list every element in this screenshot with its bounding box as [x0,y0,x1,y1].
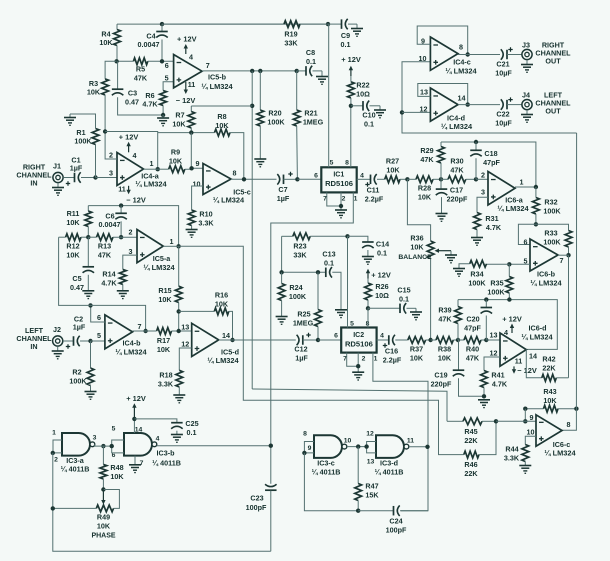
resistor R15 [158,246,182,331]
svg-text:1: 1 [52,430,56,437]
svg-text:0.0047: 0.0047 [99,220,121,229]
node [494,419,528,423]
power -12V [126,186,146,205]
resistor R4 [99,24,120,61]
NAND gate IC3-d [366,431,414,477]
svg-text:OUT: OUT [545,107,561,116]
svg-text:100K: 100K [69,377,87,386]
svg-text:10K: 10K [215,300,229,309]
svg-text:C17: C17 [450,186,463,195]
node [250,69,299,73]
resistor R16 [179,291,233,341]
svg-text:¼ LM324: ¼ LM324 [441,122,473,131]
svg-text:4.7K: 4.7K [101,279,117,288]
wire [281,236,283,272]
svg-text:IC4-b: IC4-b [123,339,142,348]
svg-text:4: 4 [133,151,137,160]
svg-text:R40: R40 [466,345,479,354]
wire [157,445,271,447]
wire [91,340,105,342]
svg-text:4: 4 [156,436,160,443]
capacitor C23 [246,484,277,551]
node [114,59,164,63]
svg-text:13: 13 [420,88,428,97]
capacitor C11 [357,174,385,203]
svg-text:100K: 100K [74,137,92,146]
svg-text:5: 5 [97,331,101,340]
svg-text:47K: 47K [420,155,434,164]
op-amp IC5-a [129,228,176,273]
svg-text:10K: 10K [66,251,80,260]
node [425,445,429,449]
wire IC2 pin1 [373,353,428,511]
wire L2 [179,246,464,454]
node [88,303,92,307]
resistor R23 [282,233,348,260]
svg-text:11: 11 [407,438,414,445]
svg-text:C14: C14 [376,240,389,249]
svg-text:10µF: 10µF [495,69,512,78]
power +12V [126,394,146,419]
svg-text:R41: R41 [491,371,504,380]
wire [133,330,157,332]
svg-text:R32: R32 [544,198,557,207]
resistor R5 [117,58,174,83]
wire IC2 pin8 [367,308,369,327]
svg-text:R10: R10 [199,210,212,219]
resistor R33 [536,224,572,255]
svg-text:¼ LM324: ¼ LM324 [201,82,233,91]
resistor R38 [431,337,458,363]
svg-text:11: 11 [188,80,196,89]
svg-text:R16: R16 [215,291,228,300]
node [103,129,107,133]
svg-text:6: 6 [165,61,169,70]
svg-text:C9: C9 [341,31,350,40]
wire [304,442,314,453]
capacitor C2 [63,315,91,349]
capacitor C8 [297,48,322,76]
ground [117,291,129,299]
op-amp IC6-b [524,238,564,288]
node [156,167,160,171]
svg-text:R35: R35 [490,279,503,288]
svg-text:4.7K: 4.7K [492,380,508,389]
ground [173,395,185,403]
svg-text:IC1: IC1 [333,172,344,179]
capacitor C25 [134,419,198,437]
node [456,338,460,342]
svg-text:¼ LM324: ¼ LM324 [143,263,175,272]
wire [407,179,430,241]
resistor R48 [100,446,124,489]
resistor R31 [474,197,502,237]
svg-text:10: 10 [527,428,535,437]
capacitor C13 [282,250,341,310]
wire IC4-b feedback [59,237,146,331]
resistor R28 [407,176,441,202]
wire [318,339,341,341]
svg-text:0.1: 0.1 [341,40,351,49]
svg-text:C24: C24 [389,517,402,526]
capacitor C16 [377,335,408,365]
node [110,444,114,448]
svg-text:10K: 10K [158,295,172,304]
capacitor C1 [63,156,95,186]
svg-text:¼ 4011B: ¼ 4011B [375,468,404,477]
svg-text:R36: R36 [410,234,423,243]
svg-text:10K: 10K [438,354,452,363]
svg-text:R13: R13 [98,242,111,251]
svg-text:8: 8 [233,169,237,178]
node [189,130,193,134]
svg-text:R12: R12 [66,242,79,251]
svg-text:10Ω: 10Ω [356,90,370,99]
svg-text:8: 8 [303,431,307,438]
svg-text:0.1: 0.1 [377,249,387,258]
svg-text:22K: 22K [464,436,478,445]
svg-text:100K: 100K [289,292,307,301]
ground [171,435,183,443]
svg-text:3: 3 [93,435,97,442]
svg-text:C20: C20 [466,315,479,324]
svg-text:IC5-a: IC5-a [153,254,172,263]
svg-text:R43: R43 [543,387,556,396]
capacitor C18 [470,142,500,179]
svg-text:¼ LM324: ¼ LM324 [115,348,147,357]
node [507,262,511,266]
svg-text:IC3-d: IC3-d [380,459,398,468]
wire L1 [252,389,447,421]
node [356,444,360,448]
svg-text:¼ LM324: ¼ LM324 [530,279,562,288]
wire [458,300,557,350]
node [534,222,538,226]
wire IC4-d feedback [418,84,468,105]
svg-text:1µF: 1µF [70,164,83,173]
op-amp IC4-c [419,37,478,76]
wire [409,446,428,448]
node [349,104,353,108]
svg-text:220pF: 220pF [431,380,452,389]
svg-text:+ 12V: + 12V [341,55,361,64]
node [356,509,360,513]
NAND gate IC3-b [112,426,181,468]
resistor R18 [158,348,192,395]
svg-text:C10: C10 [362,111,375,120]
svg-text:0.1: 0.1 [306,57,316,66]
node [345,234,349,238]
potentiometer R49 [53,490,116,540]
svg-text:8: 8 [345,159,349,166]
wire [117,23,328,25]
svg-text:− 12V: − 12V [176,96,196,105]
svg-text:1: 1 [374,356,378,363]
resistor R39 [438,300,461,340]
svg-text:100K: 100K [487,288,505,297]
svg-text:RD5106: RD5106 [345,339,373,348]
svg-text:100pF: 100pF [386,526,407,535]
svg-text:11: 11 [515,357,523,366]
capacitor C21 [495,47,522,77]
svg-text:1MEG: 1MEG [293,319,314,328]
svg-text:220pF: 220pF [447,195,468,204]
svg-text:11: 11 [118,185,126,194]
wire [251,71,253,389]
wire [402,111,430,113]
power +12V [119,133,139,153]
svg-text:3: 3 [109,169,113,178]
label RIGHT CHANNEL OUT [535,41,571,66]
connector J2 [53,325,63,346]
ground [64,114,76,125]
svg-text:9: 9 [308,445,312,452]
svg-text:14: 14 [529,352,537,361]
svg-text:13: 13 [490,330,498,339]
node [51,451,55,455]
svg-text:0.47: 0.47 [125,98,139,107]
svg-text:R39: R39 [438,306,451,315]
svg-text:10K: 10K [169,157,183,166]
svg-text:2: 2 [54,457,58,464]
svg-text:IC4-d: IC4-d [447,113,465,122]
resistor R12 [59,234,89,260]
svg-text:OUT: OUT [545,57,561,66]
label pins IC1 [314,159,364,202]
capacitor C4 [138,24,168,61]
resistor R35 [487,264,512,299]
svg-text:R11: R11 [67,209,80,218]
node [279,270,320,274]
resistor R3 [87,61,117,131]
svg-text:14: 14 [458,94,466,103]
node [484,297,512,301]
svg-text:4.7K: 4.7K [142,100,158,109]
ground [82,291,94,299]
svg-text:+ 12V: + 12V [371,271,391,280]
ground [351,24,363,36]
svg-text:10K: 10K [157,345,171,354]
svg-text:2: 2 [481,171,485,180]
svg-text:7: 7 [206,61,210,70]
wire bus right [562,133,577,430]
node [242,177,246,181]
svg-text:15K: 15K [365,491,379,500]
wire IC1 pin8 [350,106,352,168]
svg-text:J3: J3 [522,41,530,50]
resistor R29 [420,142,444,179]
wire IC1 pin1 [271,192,354,483]
svg-text:¼ LM324: ¼ LM324 [544,448,576,457]
svg-text:1µF: 1µF [277,194,290,203]
svg-text:C3: C3 [128,89,137,98]
svg-text:10K: 10K [99,38,113,47]
node [482,394,486,398]
svg-text:PHASE: PHASE [91,533,115,540]
svg-text:0.1: 0.1 [364,120,374,129]
svg-text:10K: 10K [97,522,111,531]
node [428,338,432,342]
svg-text:BALANCE: BALANCE [398,254,432,261]
svg-text:¼ 4011B: ¼ 4011B [152,458,181,467]
wire [95,444,112,446]
svg-text:IC5-b: IC5-b [208,73,227,82]
resistor R17 [157,328,192,354]
resistor R26 [365,279,390,309]
svg-text:J4: J4 [522,91,530,100]
wire x402 bus [402,62,577,133]
svg-text:5: 5 [350,321,354,328]
svg-text:4: 4 [380,333,384,340]
svg-text:C12: C12 [294,345,307,354]
svg-text:0.1: 0.1 [399,295,409,304]
wire [53,440,62,453]
svg-text:4: 4 [189,53,193,62]
resistor R6 [142,82,173,115]
resistor R46 [464,421,496,478]
ground [52,346,64,359]
svg-text:10K: 10K [172,120,186,129]
resistor R32 [533,187,562,224]
op-amp IC4-d [420,88,473,132]
wire [297,178,321,180]
svg-text:6: 6 [314,173,318,180]
svg-text:− 12V: − 12V [517,366,537,375]
op-amp IC6-a [481,171,529,214]
svg-text:22K: 22K [464,469,478,478]
power -12V [176,82,196,105]
capacitor C9 [328,19,357,49]
svg-text:10K: 10K [66,218,80,227]
wire [476,178,488,180]
svg-text:3: 3 [481,188,485,197]
resistor R9 [158,148,203,173]
svg-text:2: 2 [109,151,113,160]
svg-text:C8: C8 [306,48,315,57]
svg-text:0.1: 0.1 [324,259,334,268]
wire [144,168,158,170]
capacitor C20 [464,300,492,340]
svg-text:3.3K: 3.3K [158,380,174,389]
svg-text:R49: R49 [97,513,110,522]
capacitor C7 [277,172,298,203]
node [405,177,409,181]
svg-text:C11: C11 [367,186,380,195]
svg-text:47K: 47K [98,251,112,260]
power +12V [502,315,522,334]
svg-text:6: 6 [97,313,101,322]
node [176,244,180,248]
node [439,177,443,181]
connector J3 [522,41,532,60]
ground [316,71,328,84]
node [466,52,470,56]
node [230,338,234,342]
svg-text:12: 12 [490,349,498,358]
svg-text:3.3K: 3.3K [198,219,214,228]
resistor R42 [526,349,568,381]
ground [362,257,374,265]
wire IC1 pin5 [328,24,330,167]
svg-text:¼ LM324: ¼ LM324 [213,196,245,205]
ground [276,317,288,325]
svg-text:47pF: 47pF [483,158,500,167]
svg-text:+ 12V: + 12V [119,133,139,142]
resistor R8 [158,112,244,179]
node [160,22,330,26]
wire [496,420,536,422]
svg-text:2.2µF: 2.2µF [365,195,384,204]
svg-text:4: 4 [504,328,508,337]
svg-text:14: 14 [222,331,230,340]
svg-text:9: 9 [530,413,534,422]
ground [471,238,483,246]
svg-text:10K: 10K [410,243,424,252]
svg-text:7: 7 [560,256,564,265]
capacitor C12 [233,333,319,363]
svg-text:IC6-d: IC6-d [529,324,547,333]
ground [186,230,198,238]
svg-text:R47: R47 [365,482,378,491]
op-amp IC4-b [97,313,147,357]
svg-text:R29: R29 [420,146,433,155]
svg-text:3.3K: 3.3K [504,454,520,463]
svg-text:R9: R9 [171,148,180,157]
ground [453,269,465,277]
svg-text:R5: R5 [136,65,145,74]
node [119,203,123,207]
resistor R30 [441,157,476,183]
svg-text:12: 12 [420,105,428,114]
svg-text:J2: J2 [53,325,61,334]
svg-text:C15: C15 [397,286,410,295]
capacitor C22 [495,97,522,127]
resistor R44 [504,436,536,465]
svg-text:R18: R18 [159,371,172,380]
svg-text:C21: C21 [496,60,509,69]
svg-text:C7: C7 [278,185,287,194]
svg-text:IC4-c: IC4-c [453,58,471,67]
svg-text:1MEG: 1MEG [303,118,324,127]
svg-text:12: 12 [366,431,374,438]
capacitor C17 [436,179,468,213]
svg-text:2: 2 [342,196,346,203]
svg-text:10K: 10K [110,472,124,481]
node [474,177,478,181]
ground [519,466,531,474]
svg-text:R37: R37 [410,345,423,354]
node [88,339,92,343]
node [534,185,538,189]
capacitor C14 [348,236,390,257]
IC IC1 RD5106 [321,167,356,192]
svg-text:R14: R14 [102,270,115,279]
svg-text:47K: 47K [466,354,480,363]
svg-text:RD5106: RD5106 [325,179,353,188]
wire IC4-c feedback [417,26,468,55]
op-amp IC5-c [193,159,251,205]
svg-text:R23: R23 [293,242,306,251]
resistor R7 [172,106,252,133]
ground [436,214,448,222]
wire [347,446,367,448]
svg-text:0.0047: 0.0047 [138,40,160,49]
resistor R10 [188,186,214,230]
svg-text:IC3-c: IC3-c [317,459,335,468]
svg-text:R38: R38 [438,345,451,354]
resistor R20 [257,71,285,159]
svg-text:R34: R34 [470,270,483,279]
